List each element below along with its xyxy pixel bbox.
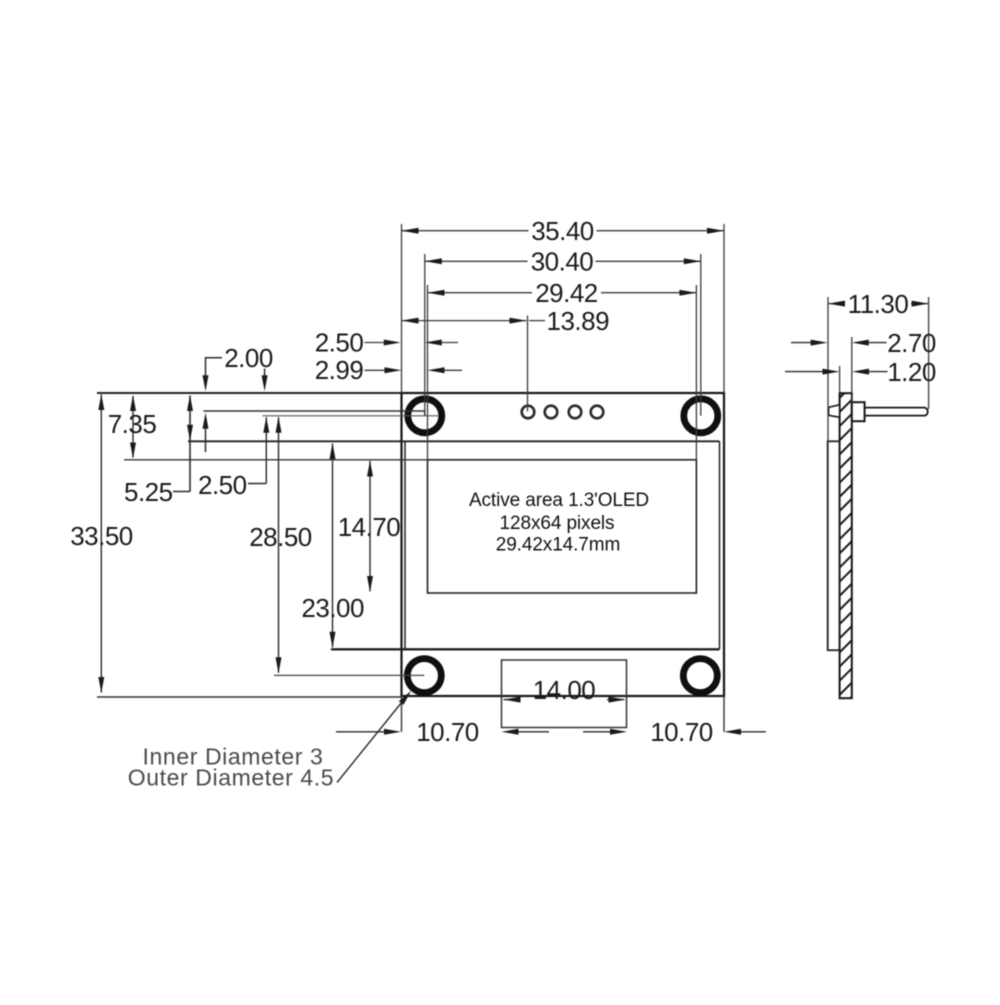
svg-text:13.89: 13.89 xyxy=(547,306,610,336)
dim 5.25 vertical with elbow leader xyxy=(189,396,191,492)
svg-text:11.30: 11.30 xyxy=(848,289,909,319)
mounting hole bottom-left xyxy=(407,659,441,693)
mounting hole top-right xyxy=(684,399,718,433)
PCB outline front view xyxy=(402,393,725,696)
svg-text:1.20: 1.20 xyxy=(887,357,936,387)
dim 23.00 vertical xyxy=(332,444,334,648)
dim 2.70 xyxy=(791,342,812,344)
dim 33.50 vertical xyxy=(100,395,102,693)
svg-text:2.50: 2.50 xyxy=(198,470,247,500)
svg-text:5.25: 5.25 xyxy=(124,477,173,507)
svg-text:28.50: 28.50 xyxy=(249,522,312,552)
svg-text:2.00: 2.00 xyxy=(224,343,273,373)
mounting hole top-left xyxy=(408,399,442,433)
dim 1.20 xyxy=(785,371,824,373)
dim 7.35 vertical xyxy=(132,396,134,458)
svg-text:14.00: 14.00 xyxy=(533,675,596,705)
horizontal reference line y=411 (pin row) xyxy=(204,410,425,412)
dim 28.50 vertical xyxy=(278,417,280,673)
dim 11.30 xyxy=(828,297,929,441)
dim 14.00 xyxy=(504,699,521,701)
side glass xyxy=(828,441,840,650)
svg-text:23.00: 23.00 xyxy=(301,593,364,623)
active area rectangle xyxy=(428,460,697,593)
leader to bottom-left hole xyxy=(337,700,404,783)
pin tip left xyxy=(829,405,840,418)
svg-text:2.70: 2.70 xyxy=(887,328,936,358)
side PCB bar with hatch xyxy=(840,393,852,698)
svg-text:29.42x14.7mm: 29.42x14.7mm xyxy=(496,535,620,556)
svg-text:7.35: 7.35 xyxy=(108,409,157,439)
PCB left edge lower extension xyxy=(401,696,403,732)
elbow down to hole center xyxy=(424,411,426,416)
bottom connector rectangle (14.00 box) xyxy=(502,660,627,728)
svg-text:35.40: 35.40 xyxy=(531,216,594,246)
dim 35.40 xyxy=(402,224,725,393)
svg-text:128x64 pixels: 128x64 pixels xyxy=(500,513,615,534)
pin hole circles xyxy=(522,406,604,419)
dim 29.42 xyxy=(428,285,697,460)
horizontal reference line y=415.8 (hole center) xyxy=(263,415,439,417)
dim 30.40 xyxy=(425,254,701,416)
svg-text:2.50: 2.50 xyxy=(315,328,364,358)
bottom edge extension to left xyxy=(97,696,402,698)
svg-text:Outer Diameter 4.5: Outer Diameter 4.5 xyxy=(128,765,334,791)
active area extension line left (7.35 reference) xyxy=(124,459,428,461)
top edge extension to left xyxy=(97,392,402,394)
PCB right edge lower extension xyxy=(723,696,725,732)
28.50 bottom extension line to hole center xyxy=(274,674,424,676)
svg-text:2.99: 2.99 xyxy=(315,355,364,385)
svg-text:Active area 1.3'OLED: Active area 1.3'OLED xyxy=(469,490,649,511)
dim 10.70 left xyxy=(336,731,385,733)
pin block xyxy=(852,402,865,421)
dim 13.89 xyxy=(402,316,546,412)
2.00 lower arrows pointing up xyxy=(203,413,209,429)
svg-text:10.70: 10.70 xyxy=(650,717,713,747)
svg-text:29.42: 29.42 xyxy=(535,278,598,308)
dim 14.70 vertical xyxy=(369,461,371,592)
svg-text:10.70: 10.70 xyxy=(416,717,479,747)
svg-text:33.50: 33.50 xyxy=(70,521,133,551)
svg-text:30.40: 30.40 xyxy=(531,247,594,277)
svg-text:14.70: 14.70 xyxy=(338,512,401,542)
mounting hole bottom-right xyxy=(683,659,717,693)
dim 10.70 right xyxy=(583,731,611,733)
pin going right xyxy=(865,408,928,416)
display glass outline xyxy=(188,441,720,649)
